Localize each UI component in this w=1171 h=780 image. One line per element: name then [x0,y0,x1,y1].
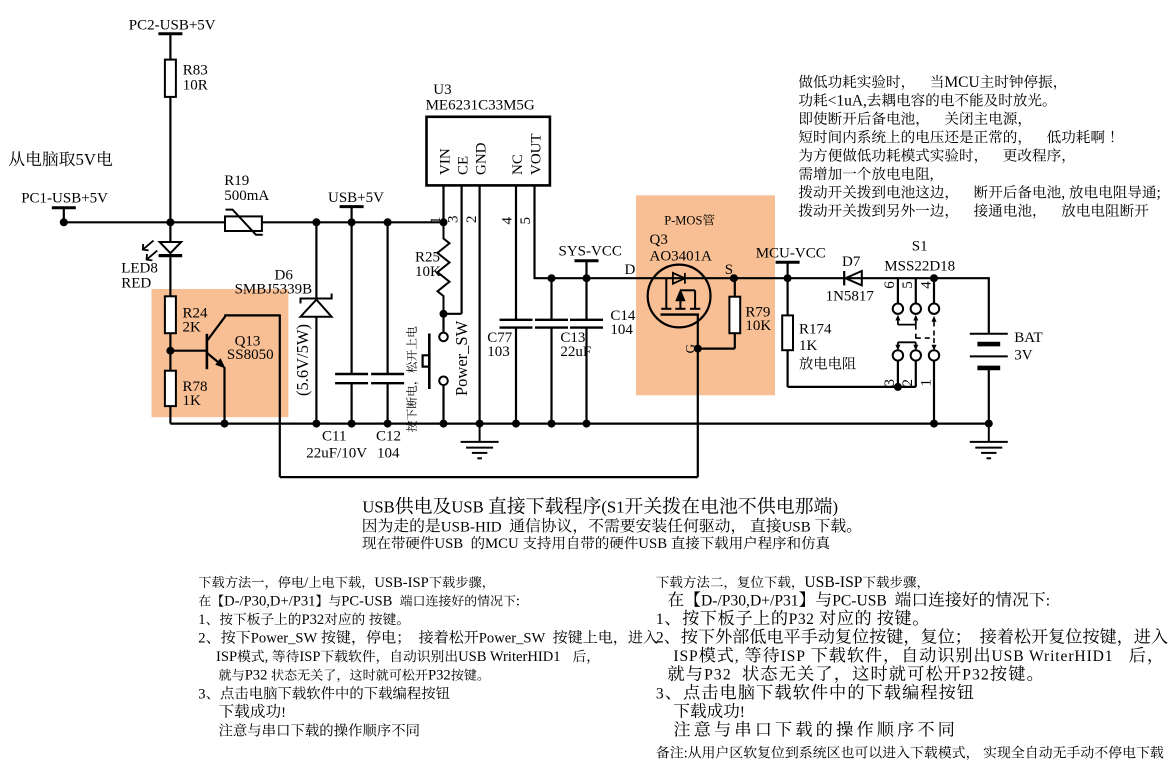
fuse R19 diagonal [226,210,263,235]
zener D6 triangle [301,300,332,317]
svg-text:<1uA,: <1uA, [828,92,867,109]
junction battery/ground rail [985,420,993,428]
diode D7 cathode bar [843,271,845,285]
svg-text:USB: USB [451,498,483,517]
pin label GND [473,142,489,175]
svg-text:SYS-VCC: SYS-VCC [559,243,622,259]
svg-text:4: 4 [500,217,516,225]
transistor Q3 gate bar [661,313,700,315]
junction C14/ground rail [583,420,591,428]
wire CE pin [461,185,463,313]
pin number 2 [464,216,480,224]
wire rail to D6 [315,222,317,298]
pin label CE [455,156,471,175]
junction C77/ground rail [512,420,520,428]
power flag SYS-VCC [585,261,587,278]
junction R25/CE/switch [440,310,448,318]
junction rail/S1 pin4 [930,274,938,282]
svg-text:RED: RED [121,275,151,291]
svg-text:USB: USB [782,519,811,535]
switch S1 pin3 contact [893,350,903,360]
switch S1 pin1 contact [929,350,939,360]
pin number 3 [446,216,462,224]
svg-text:): ) [833,498,839,517]
subtitle line 2 [362,536,434,549]
switch Power_SW actuator [428,334,431,390]
switch S1 pin6 contact [893,304,903,314]
fuse R19 [225,216,262,231]
op-amp U3 body [427,117,550,186]
svg-text:USB: USB [638,536,667,552]
wire R174 bottom [786,350,788,387]
LED8 cathode bar [159,254,183,257]
wire base [170,350,207,352]
junction rail/D6 [312,218,320,226]
wire rail to LED8 [169,222,171,242]
pin label VOUT [528,133,544,175]
svg-text:2K: 2K [183,319,202,335]
svg-text:P32: P32 [704,667,732,684]
pin number 5 [900,281,916,289]
svg-text:1K: 1K [799,338,818,354]
capacitor C12 [371,373,404,375]
svg-text:1: 1 [656,611,664,628]
transistor Q13 base bar [206,334,209,369]
wire battery to ground rail [988,368,990,424]
capacitor C77 [500,319,533,321]
svg-text:USB: USB [434,536,463,552]
svg-text:P32: P32 [962,667,990,684]
pin number 3 [882,379,898,387]
svg-text:R19: R19 [224,173,249,189]
junction Power_SW/ground rail [440,420,448,428]
resistor R78 [165,371,176,406]
junction pin1/ground rail [930,420,938,428]
svg-text:,: , [265,649,269,665]
pin label VIN [437,148,453,175]
wire VIN pin [442,185,444,222]
junction MCU-VCC node [784,274,792,282]
diode D7 [845,271,861,285]
battery BAT plates [970,334,1008,368]
label 5.6V/5W rotated [293,324,312,396]
switch S1 pin5 contact [911,304,921,314]
wire top rail left [64,221,444,223]
junction emitter/ground rail [221,420,229,428]
junction C14/rail [583,274,591,282]
transistor Q13 collector [207,316,225,341]
wire C77 to ground rail [515,328,517,424]
zener D6 cathode bar [301,294,332,304]
junction S node [730,274,738,282]
pin number 4 [918,281,934,289]
svg-text:VOUT: VOUT [528,133,544,175]
svg-text:3: 3 [882,379,898,387]
power flag PC1-USB+5V [63,208,65,223]
svg-text:P32: P32 [428,668,451,684]
svg-text:3: 3 [446,216,462,224]
wire S to R79 [734,278,736,297]
LED8 diode [160,242,182,253]
junction gate node [694,345,702,353]
svg-text:1: 1 [918,379,934,387]
svg-text:10K: 10K [415,264,441,280]
svg-text:(S1: (S1 [601,498,624,517]
svg-text::: : [684,745,688,761]
svg-text:PC2-USB+5V: PC2-USB+5V [129,18,216,34]
svg-text:PC-USB: PC-USB [341,594,392,610]
wire to C13 [550,278,552,320]
svg-text:ISP: ISP [781,648,806,665]
svg-text:1K: 1K [183,393,202,409]
wire emitter down [223,367,225,424]
pin number 1 [428,217,444,225]
svg-text:1N5817: 1N5817 [826,289,875,305]
svg-text:3V: 3V [1014,347,1033,363]
switch S1 pin4 stub [933,278,935,303]
wire collector down [279,314,281,477]
svg-text::: : [516,594,520,610]
wire GND pin [479,185,481,423]
svg-text:4: 4 [918,281,934,289]
svg-text:5: 5 [518,217,534,225]
switch S1 pin6 stub [897,278,899,303]
resistor R25 zigzag [438,222,450,313]
junction rail/C12 [384,218,392,226]
resistor R79 [729,297,740,334]
wire rail to battery [988,277,990,334]
switch S1 pin2 contact [911,350,921,360]
junction rail/R83/LED8 [166,218,174,226]
resistor R174 [782,315,793,350]
wire to C11 [351,222,353,374]
svg-text:D7: D7 [842,254,861,270]
note remark bottom [656,746,683,759]
junction D6/ground rail [312,420,320,428]
svg-text:G: G [682,344,697,353]
switch Power_SW contact bottom [439,377,448,386]
wire to C12 [387,222,389,374]
svg-text:C11: C11 [322,428,346,444]
svg-text:BAT: BAT [1014,330,1042,346]
transistor Q13 emitter [207,353,224,367]
power flag USB+5V [351,207,353,223]
switch Power_SW contact top [439,333,448,342]
svg-text:P-MOS: P-MOS [664,214,702,228]
svg-text:ISP: ISP [299,649,320,665]
wire VOUT pin [533,185,535,278]
svg-text:;: ; [1157,184,1161,201]
wire collector [224,314,226,317]
wire gate to R79 [698,348,735,350]
svg-text:C12: C12 [376,428,401,444]
wire gate link up [697,349,699,478]
switch S1 pin5 stub [915,278,917,303]
svg-text:Power_SW: Power_SW [251,631,318,647]
transistor Q3 substrate arrow [675,289,685,301]
junction base node [166,347,174,355]
junction VIN/rail [440,218,448,226]
svg-text:3: 3 [656,685,665,702]
svg-text:/: / [304,575,309,591]
svg-text:LED8: LED8 [121,261,158,277]
label 从电脑取5V电 [9,151,75,166]
wire NC pin [515,185,517,319]
switch S1 pin3 stub [897,361,899,387]
junction C11/ground rail [348,420,356,428]
pin number 4 [500,217,516,225]
wire R24 to base node [169,333,171,371]
wire gate [697,315,699,349]
svg-text:VIN: VIN [437,148,453,175]
wire to S1 pin2 [915,361,917,387]
wire Power_SW to ground rail [442,385,444,424]
wire C14 to ground rail [585,328,587,424]
svg-text:ME6231C33M5G: ME6231C33M5G [426,97,535,113]
svg-text:SS8050: SS8050 [227,347,274,363]
svg-text:!: ! [740,704,745,721]
svg-text:PC-USB: PC-USB [832,593,887,610]
pin number 2 [900,379,916,387]
svg-text::: : [1046,593,1050,610]
svg-text:MCU: MCU [944,74,979,91]
svg-text:S1: S1 [912,239,928,255]
svg-text:USB WriterHID1: USB WriterHID1 [992,648,1114,665]
capacitor C11 [335,373,368,375]
svg-text:2: 2 [900,379,916,387]
svg-text:5: 5 [900,281,916,289]
svg-text:104: 104 [610,322,633,338]
svg-text:PC1-USB+5V: PC1-USB+5V [21,191,108,207]
svg-text:,: , [735,648,740,665]
svg-text:R174: R174 [799,322,832,338]
svg-text:6: 6 [882,281,898,289]
capacitor C14 [570,319,603,321]
junction GND/ground rail [476,420,484,428]
svg-text:CE: CE [455,156,471,175]
svg-text:500mA: 500mA [224,188,269,204]
svg-text:2: 2 [464,216,480,224]
switch S1 linkage dashed [916,322,934,347]
svg-text:P32: P32 [789,611,815,628]
svg-text:SMBJ5339B: SMBJ5339B [235,282,313,298]
junction C12/ground rail [384,420,392,428]
svg-text:NC: NC [510,154,526,175]
LED8 arrows [143,241,158,261]
wire R79 bottom [734,333,736,348]
svg-text:2: 2 [198,631,205,647]
resistor R83 [165,60,176,97]
note block top right [799,74,1161,219]
note block method two [656,574,1168,737]
svg-text:103: 103 [487,344,510,360]
subtitle line 1 [363,518,440,532]
svg-text:22uF/10V: 22uF/10V [306,446,367,462]
svg-text:D-/P30,D+/P31: D-/P30,D+/P31 [701,593,799,610]
wire ground rail [170,423,988,425]
transistor Q3 body diode bar [684,273,686,284]
svg-text:MSS22D18: MSS22D18 [884,258,955,274]
svg-text:1: 1 [198,612,205,628]
highlight box around Q3 P-MOS [636,195,775,395]
transistor Q3 drain contact [661,278,671,309]
pin number 1 [918,379,934,387]
transistor Q13 emitter arrowhead [215,358,225,368]
svg-text:ISP: ISP [216,649,237,665]
svg-text:USB-ISP: USB-ISP [804,574,862,591]
svg-text:USB-ISP: USB-ISP [374,575,428,591]
wire D6 to ground rail [315,317,317,424]
ground symbol U3 [461,424,499,459]
power flag MCU-VCC [786,262,788,278]
svg-text:GND: GND [473,142,489,175]
wire C12 to ground rail [387,383,389,423]
junction C13/rail [548,274,556,282]
junction at PC1 feed [60,218,68,226]
svg-text:MCU-VCC: MCU-VCC [756,245,826,261]
switch S1 bottom pole arrows [898,342,916,346]
svg-text:10K: 10K [745,318,771,334]
svg-text:USB WriterHID1: USB WriterHID1 [458,649,561,665]
wire gate link horizontal [280,476,698,478]
note block method one [198,575,657,737]
svg-text:5V: 5V [76,150,97,169]
svg-text:104: 104 [377,446,400,462]
svg-text:ISP: ISP [673,648,698,665]
wire S1 pin1 down [933,361,935,424]
svg-text:2: 2 [656,630,664,647]
svg-text:,: , [930,166,934,183]
ground symbol battery [970,424,1008,459]
label G rotated [682,344,697,353]
wire R83 to rail [169,97,171,222]
svg-text:U3: U3 [433,82,451,98]
wire C11 to ground rail [351,383,353,423]
svg-text:USB+5V: USB+5V [328,190,384,206]
svg-text:AO3401A: AO3401A [650,248,713,264]
resistor R24 [165,296,176,333]
svg-text:R25: R25 [415,249,440,265]
svg-text:3: 3 [198,686,205,702]
switch S1 pin4 contact [929,304,939,314]
svg-text:Power_SW: Power_SW [479,631,546,647]
pin label NC [510,154,526,175]
highlight box around Q13 bias network [152,289,289,417]
transistor Q3 source contact [680,290,700,309]
pin number 6 [882,281,898,289]
svg-text:R83: R83 [183,63,208,79]
svg-text:D: D [625,262,636,278]
wire to Power_SW [442,314,444,333]
junction S1 pin3 [894,383,902,391]
wire SYS-VCC rail [534,277,989,279]
wire to R174 [786,278,788,315]
svg-text:MCU: MCU [485,536,519,552]
svg-text:(5.6V/5W): (5.6V/5W) [293,324,312,396]
wire to C14 [585,278,587,320]
capacitor C13 [535,319,568,321]
wire C13 to ground rail [550,328,552,424]
svg-text:!: ! [281,705,286,721]
transistor Q3 body circle [648,265,711,328]
junction C13/ground rail [548,420,556,428]
svg-text:P32: P32 [245,668,268,684]
svg-text:D-/P30,D+/P31: D-/P30,D+/P31 [224,594,315,610]
label 按下断电松开上电 rotated [406,326,418,431]
transistor Q3 body diode [673,273,685,284]
wire LED8 to R24 [169,257,171,296]
wire R78 to ground rail [169,406,171,424]
svg-text:P32: P32 [302,612,325,628]
svg-text:USB-HID: USB-HID [441,519,502,535]
svg-text:USB: USB [362,498,394,517]
power flag PC2-USB+5V [169,34,171,60]
svg-text:Q3: Q3 [650,232,668,248]
svg-text:10R: 10R [183,78,208,94]
switch S1 top pole arrows [898,319,916,325]
pin number 5 [518,217,534,225]
junction rail/C11 [348,218,356,226]
svg-text:,: , [1061,184,1065,201]
svg-text:Power_SW: Power_SW [452,320,471,396]
label Power_SW rotated [452,320,471,396]
